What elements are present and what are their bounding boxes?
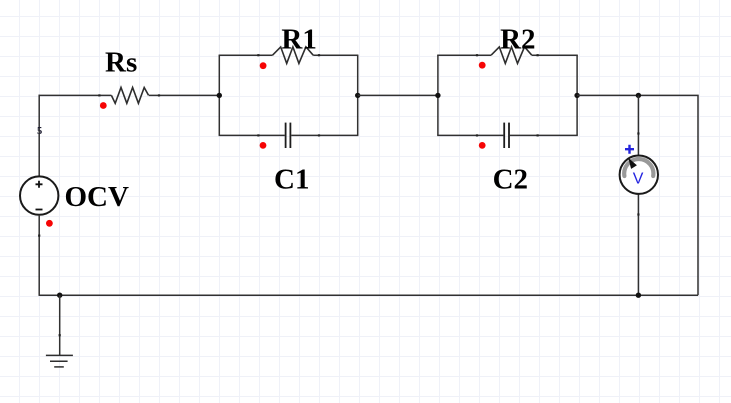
voltmeter needle (628, 158, 637, 169)
terminal tick OCV bottom (38, 235, 40, 237)
wire OCV lower lead (38, 215, 40, 296)
wire R2 box bottom edge right lead (510, 134, 578, 136)
wire R2 box right vertical (576, 55, 578, 135)
terminal tick C2 right (537, 134, 539, 136)
svg-text:V: V (633, 171, 644, 188)
label R2 (500, 23, 535, 55)
wire R2 box bottom edge left lead (437, 134, 503, 136)
terminal tick C1 left (257, 134, 259, 136)
wire R1 box left vertical (218, 55, 220, 135)
wire R1 box top edge right lead (313, 54, 358, 56)
capacitor C1 left plate (285, 123, 287, 148)
node junction dot voltmeter bottom tap (636, 293, 641, 298)
terminal tick Rs left lead (98, 94, 100, 96)
node junction dot ground tap (57, 293, 62, 298)
resistor R2 (491, 47, 532, 64)
label C2 (493, 163, 528, 195)
voltage source OCV body circle (20, 176, 58, 214)
wire ground stub (59, 295, 61, 355)
label Rs (105, 46, 137, 78)
terminal tick R1 left (257, 54, 259, 56)
wire bottom rail (39, 294, 698, 296)
svg-text:C1: C1 (274, 163, 309, 195)
terminal tick ground stub (59, 334, 61, 336)
resistor R1 (273, 47, 314, 64)
terminal tick voltmeter bottom (637, 213, 639, 215)
svg-text:Rs: Rs (105, 46, 137, 78)
capacitor C2 right plate (508, 123, 510, 148)
svg-text:R2: R2 (500, 23, 535, 55)
wire R2 box to top-right corner (577, 95, 698, 295)
capacitor C1 right plate (289, 123, 291, 148)
terminal tick R2 right (537, 54, 539, 56)
voltmeter V1 body circle (620, 156, 658, 194)
voltmeter V letter (633, 171, 644, 188)
wire label glyph 5 on left wire (37, 126, 42, 137)
terminal tick R1 right (318, 54, 320, 56)
wire Rs to R1 box (149, 94, 219, 96)
wire R1 box right vertical (357, 55, 359, 135)
red marker dot near R2 (479, 62, 486, 69)
node junction dot R1 left (217, 93, 222, 98)
terminal tick C2 left (476, 134, 478, 136)
wire OCV upper lead (38, 95, 40, 177)
red marker dot below OCV (46, 220, 53, 227)
voltage source OCV minus sign (36, 209, 43, 211)
svg-text:OCV: OCV (65, 181, 130, 213)
wire R2 box top edge left lead (437, 54, 491, 56)
label OCV (65, 181, 130, 213)
capacitor C2 left plate (503, 123, 505, 148)
terminal tick Rs right lead (158, 94, 160, 96)
wire R1 box bottom edge right lead (291, 134, 358, 136)
wire R1 box bottom edge left lead (219, 134, 285, 136)
svg-text:5: 5 (37, 126, 42, 137)
label R1 (281, 23, 316, 55)
node junction dot voltmeter top tap (636, 93, 641, 98)
wire top-left horizontal from OCV corner to Rs (39, 94, 112, 96)
ground symbol (46, 355, 73, 367)
wire R2 box top edge right lead (532, 54, 578, 56)
node junction dot R2 left (435, 93, 440, 98)
wire R2 box left vertical (437, 55, 439, 135)
voltage source OCV plus sign (36, 181, 43, 188)
wire voltmeter upper lead (637, 95, 639, 155)
voltmeter plus polarity mark (625, 145, 634, 154)
red marker dot near C2 (479, 142, 486, 149)
voltmeter gauge arc (624, 159, 653, 176)
terminal tick R2 left (476, 54, 478, 56)
svg-text:R1: R1 (281, 23, 316, 55)
svg-text:C2: C2 (493, 163, 528, 195)
label C1 (274, 163, 309, 195)
wire voltmeter lower lead (637, 194, 639, 295)
resistor Rs (111, 88, 148, 104)
red marker dot near R1 (260, 62, 267, 69)
node junction dot R1 right (355, 93, 360, 98)
terminal tick voltmeter top (637, 132, 639, 134)
wire R1 box top edge left lead (219, 54, 273, 56)
red marker dot near Rs (100, 102, 107, 109)
red marker dot near C1 (260, 142, 267, 149)
wire R1 to R2 box (358, 94, 438, 96)
terminal tick C1 right (318, 134, 320, 136)
node junction dot R2 right (574, 93, 579, 98)
